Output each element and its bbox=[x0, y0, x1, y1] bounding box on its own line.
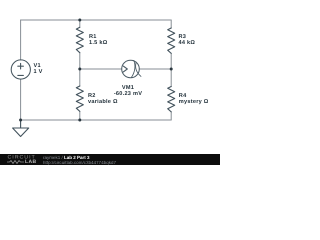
voltmeter VM1 bbox=[122, 60, 141, 78]
footer text line2 bbox=[43, 160, 116, 165]
wire bottom horizontal bbox=[21, 119, 172, 121]
resistor R1 bbox=[76, 27, 83, 52]
footer logo LAB bbox=[25, 159, 36, 165]
label R1 bbox=[89, 34, 107, 47]
wire middle left segment bbox=[80, 68, 122, 70]
wire left rail top bbox=[20, 20, 22, 60]
node junction R3 bottom bbox=[170, 68, 173, 71]
voltage source V1 bbox=[11, 60, 30, 79]
wire top horizontal bbox=[21, 19, 172, 21]
wire R4 bottom lead bbox=[170, 112, 172, 120]
node junction R2 bottom bbox=[78, 119, 81, 122]
node junction R1 bottom bbox=[78, 68, 81, 71]
footer logo resistor squiggle bbox=[7, 160, 24, 164]
footer bar bbox=[0, 154, 220, 165]
node junction V1 top R1 bbox=[78, 19, 81, 22]
resistor R4 bbox=[168, 87, 175, 112]
resistor R3 bbox=[168, 28, 175, 53]
label VM1 bbox=[106, 85, 151, 98]
label V1 bbox=[34, 63, 43, 76]
footer logo CIRCUIT bbox=[8, 155, 36, 161]
label R3 bbox=[179, 34, 196, 47]
wire R3-R4 link bbox=[170, 53, 172, 86]
wire R3 branch upper bbox=[170, 20, 172, 28]
footer text line1 bbox=[43, 155, 90, 160]
wire R2 bottom lead bbox=[79, 111, 81, 120]
wire R1-R2 link bbox=[79, 53, 81, 87]
resistor R2 bbox=[76, 86, 83, 111]
wire left rail bottom bbox=[20, 79, 22, 120]
wire middle right segment bbox=[139, 68, 171, 70]
label R2 bbox=[88, 93, 118, 106]
ground bbox=[13, 120, 29, 137]
label R4 bbox=[179, 93, 209, 106]
node junction ground bbox=[19, 119, 22, 122]
wire R1 branch upper bbox=[79, 20, 81, 27]
